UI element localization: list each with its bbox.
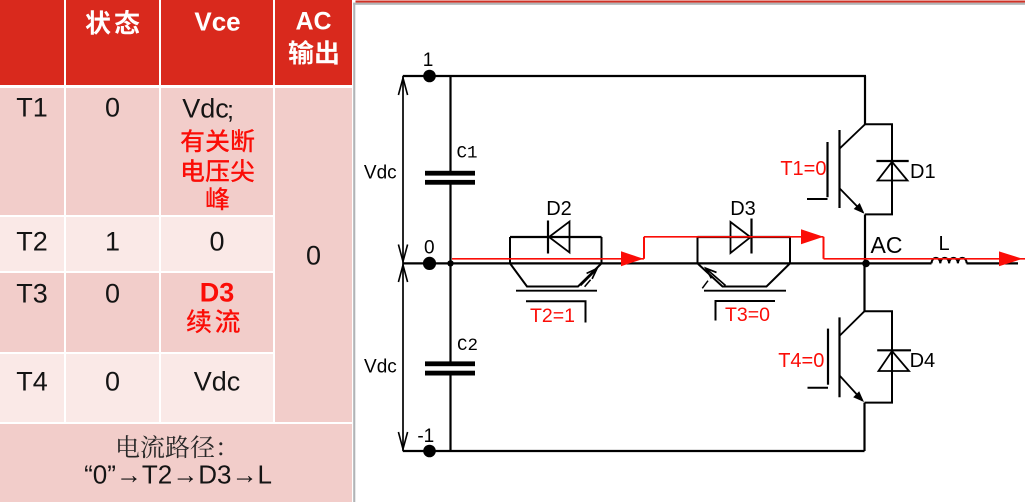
svg-text:D2: D2 [546,198,572,220]
node -1 junction dot [423,445,436,458]
table row T1 cell col1 [0,88,64,215]
table bottom row (current path) [0,424,352,502]
T3 续流 [186,307,244,335]
wire: dc bus upper segment [449,76,451,171]
red top accent line [356,1,1025,3]
table row T2 cell col1 [0,217,64,271]
table row T4 cell col2 [66,354,159,422]
node 0 junction dot [423,257,436,270]
svg-text:L: L [938,233,949,255]
T3 label bracket [716,301,776,321]
svg-text:D4: D4 [910,350,936,372]
table row T2 cell col2 [66,217,159,271]
T2 Vce 0 [209,227,224,258]
red path AC to output [824,258,1025,260]
svg-text:0: 0 [424,238,435,259]
svg-text:T3=0: T3=0 [725,304,770,326]
inductor L [932,258,967,263]
svg-text:Vdc: Vdc [364,356,397,377]
red path drop to AC line [823,237,825,259]
T3 state 0 [105,279,120,310]
wire: inductor to output [967,262,1019,264]
Vdc arrow head top (up) [398,78,407,95]
red output arrowhead [999,251,1023,266]
Vdc arrow head bottom (down) [398,432,407,449]
svg-text:1: 1 [423,50,434,71]
transistor T2 body [510,263,602,290]
T1 state 0 [105,93,120,124]
table header cell col4 [275,0,353,85]
wire: top bus (+1 rail) [403,75,866,77]
T4 Vce Vdc [194,366,241,397]
T1 note line2 电压尖 [180,157,259,184]
semicolon after Vdc [227,96,234,125]
table row T4 cell col3 [161,354,273,422]
row T2 label [16,227,48,258]
svg-text:AC: AC [871,232,903,258]
red current path segment node0->T2 [452,258,644,260]
capacitor C1 [425,171,475,185]
svg-text:D1: D1 [910,161,936,183]
svg-text:C1: C1 [457,144,478,164]
Vdc arrow head above node 0 (down) [398,245,407,262]
svg-text:T4=0: T4=0 [778,350,824,372]
row T3 label [16,279,48,310]
wire: T3 branch left drop [697,237,699,263]
table header cell col2 [66,0,159,85]
red path riser up to D3 branch [643,237,645,259]
table header cell col1 [0,0,64,85]
T1 note line3 峰 [205,185,234,212]
table row T3 cell col2 [66,273,159,352]
node 1 junction dot [423,70,436,83]
diode D1 [865,124,909,214]
T1 Vce Vdc [182,93,229,124]
wire: T2 branch right drop [601,237,603,263]
T4 state 0 [105,366,120,397]
header AC [295,8,331,37]
Vdc measurement line [402,76,404,451]
table row T3 cell col1 [0,273,64,352]
table row T1 cell col2 [66,88,159,215]
svg-text:Vdc: Vdc [364,163,397,184]
IGBT T1 [807,76,865,263]
wire: T2/D2 top branch [510,236,602,238]
svg-text:D3: D3 [730,198,756,220]
table row T1 cell col3 [161,88,273,215]
Vdc arrow head below node 0 (up) [398,265,407,282]
gray border left [353,3,355,502]
table row T2 cell col3 [161,217,273,271]
header 输出 [288,38,344,67]
wire: dc bus middle segment [449,185,451,362]
wire: T3/D3 top branch [698,236,791,238]
bottom 电流路径： [115,433,244,460]
capacitor C2 [425,361,475,375]
T3 Vce D3 (red bold) [200,278,235,309]
red path along D3 branch [644,236,824,238]
wire: mid line node0 to inductor [403,262,932,264]
row T1 label [16,93,48,124]
junction dot bus/mid-line [447,260,453,266]
row T4 label [16,366,48,397]
gray border top [353,3,1025,5]
table row T3 cell col3 [161,273,273,352]
T1 note line1 有关断 [180,127,259,154]
header 状态 [85,8,144,37]
bottom current path text [84,460,272,491]
svg-text:T1=0: T1=0 [780,158,826,180]
table merged AC-output value cell [275,88,353,422]
IGBT T4 [808,263,865,451]
red arrowhead 1 [621,251,644,266]
junction dot AC node [862,260,870,268]
T2 label bracket [526,301,586,322]
wire: T2 branch left drop [509,237,511,263]
table row T4 cell col1 [0,354,64,422]
diode D2 [548,221,570,254]
wire: dc bus lower segment [449,376,451,452]
svg-text:-1: -1 [417,426,434,447]
header Vce [194,6,240,37]
red arrowhead 2 [801,229,824,244]
T2 state 1 [105,227,120,258]
table header cell col3 [161,0,273,85]
wire: bottom bus (-1 rail) [403,450,865,452]
diode D4 [865,311,912,402]
diode D3 [731,219,752,254]
AC output value 0 [306,240,321,271]
transistor T3 body [698,263,791,290]
svg-text:C2: C2 [457,336,478,356]
svg-text:T2=1: T2=1 [530,305,575,327]
wire: T3 branch right drop [789,237,791,263]
